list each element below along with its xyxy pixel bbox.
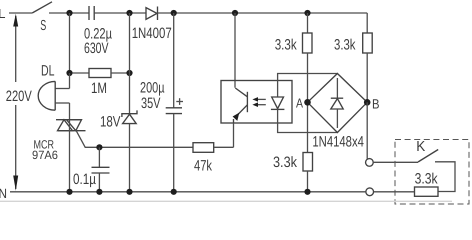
zener diode 18V xyxy=(100,110,137,191)
resistor R3 3.3k xyxy=(334,13,372,53)
svg-text:220V: 220V xyxy=(6,88,32,105)
junction dot xyxy=(171,189,177,195)
wire zener branch xyxy=(129,13,131,114)
resistor R6 47k xyxy=(193,143,234,175)
svg-text:35V: 35V xyxy=(141,95,161,112)
terminal xyxy=(366,188,374,196)
wire top rail S to C1 xyxy=(49,12,89,14)
svg-text:A: A xyxy=(296,96,303,111)
wire terminal to switch K xyxy=(374,161,418,163)
optocoupler U1 xyxy=(221,81,292,124)
junction dot xyxy=(66,10,72,16)
wire node A to R4 xyxy=(307,102,309,152)
svg-text:DL: DL xyxy=(41,62,55,79)
resistor R4 3.3k xyxy=(273,153,313,192)
scan artifact streak xyxy=(0,200,452,202)
svg-text:1M: 1M xyxy=(91,80,107,97)
wire collector branch xyxy=(234,13,236,88)
junction dot xyxy=(304,10,310,16)
junction dot xyxy=(126,70,132,76)
svg-text:630V: 630V xyxy=(84,40,109,57)
resistor R1 1M xyxy=(73,69,130,97)
svg-text:97A6: 97A6 xyxy=(32,148,58,162)
switch K xyxy=(418,150,455,192)
thyristor MCR97A6 xyxy=(32,120,99,192)
terminal xyxy=(366,159,374,167)
junction dot xyxy=(66,70,72,76)
junction dot xyxy=(66,189,72,195)
svg-text:47k: 47k xyxy=(194,158,212,175)
wire lamp branch xyxy=(69,13,71,73)
diode D1 1N4007 xyxy=(132,7,172,42)
svg-text:3.3k: 3.3k xyxy=(334,36,356,53)
junction dot xyxy=(126,10,132,16)
svg-text:1N4148x4: 1N4148x4 xyxy=(312,133,364,150)
svg-text:N: N xyxy=(0,186,7,201)
svg-text:K: K xyxy=(416,139,425,155)
svg-text:3.3k: 3.3k xyxy=(273,154,297,171)
lamp DL xyxy=(38,62,69,119)
wire gate to 47k xyxy=(99,146,193,148)
wire C1 to D1 xyxy=(94,12,146,14)
junction dot xyxy=(96,189,102,195)
wire top rail right xyxy=(158,12,368,14)
relay box K xyxy=(395,139,469,204)
node B xyxy=(364,96,380,111)
voltage arrow 220V xyxy=(6,14,32,191)
wire emitter to 47k xyxy=(233,123,235,147)
svg-text:3.3k: 3.3k xyxy=(275,36,297,53)
wire R3 to node B xyxy=(366,53,368,102)
svg-text:S: S xyxy=(40,18,46,34)
capacitor C1 0.22µ 630V xyxy=(84,6,112,57)
capacitor C3 0.1µ xyxy=(73,147,110,192)
junction dot xyxy=(304,189,310,195)
wire LED top to bridge xyxy=(278,74,338,81)
svg-text:18V: 18V xyxy=(100,114,121,131)
wire R2 to node A xyxy=(307,53,309,102)
junction dot xyxy=(171,10,177,16)
svg-text:L: L xyxy=(0,6,6,21)
wire top rail left xyxy=(9,12,32,14)
wire B to terminal xyxy=(366,102,368,159)
resistor R2 3.3k xyxy=(275,13,312,53)
wire LED bottom to bridge xyxy=(278,123,338,133)
junction dot xyxy=(96,144,102,150)
wire bottom rail xyxy=(10,191,366,193)
junction dot xyxy=(232,10,238,16)
svg-text:0.1µ: 0.1µ xyxy=(73,171,96,188)
junction dot xyxy=(126,189,132,195)
resistor R5 3.3k xyxy=(374,171,438,197)
svg-text:B: B xyxy=(372,96,380,111)
svg-text:3.3k: 3.3k xyxy=(415,171,438,188)
svg-text:1N4007: 1N4007 xyxy=(132,25,172,42)
node A xyxy=(296,96,311,111)
bridge rectifier 1N4148x4 xyxy=(308,74,368,151)
capacitor C2 200µ 35V xyxy=(140,13,183,192)
switch S xyxy=(32,2,52,34)
